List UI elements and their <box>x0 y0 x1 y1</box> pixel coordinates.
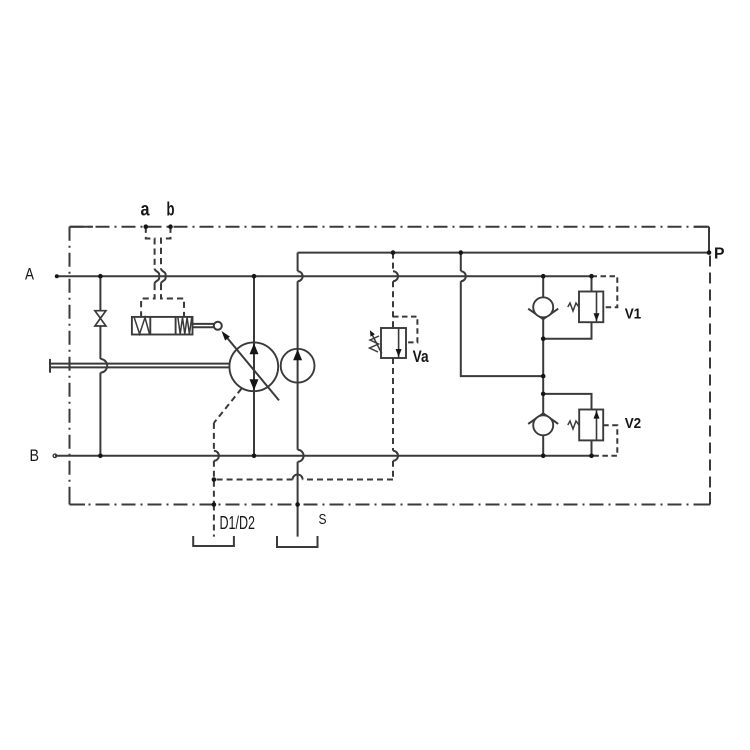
svg-text:A: A <box>25 265 35 284</box>
svg-text:b: b <box>167 198 175 220</box>
svg-text:Va: Va <box>413 347 429 366</box>
svg-text:S: S <box>319 511 327 528</box>
svg-text:D1/D2: D1/D2 <box>220 513 256 533</box>
svg-text:V2: V2 <box>625 415 642 432</box>
svg-text:P: P <box>714 246 725 263</box>
svg-text:B: B <box>30 446 40 465</box>
svg-text:a: a <box>141 198 150 220</box>
svg-text:V1: V1 <box>625 306 642 323</box>
